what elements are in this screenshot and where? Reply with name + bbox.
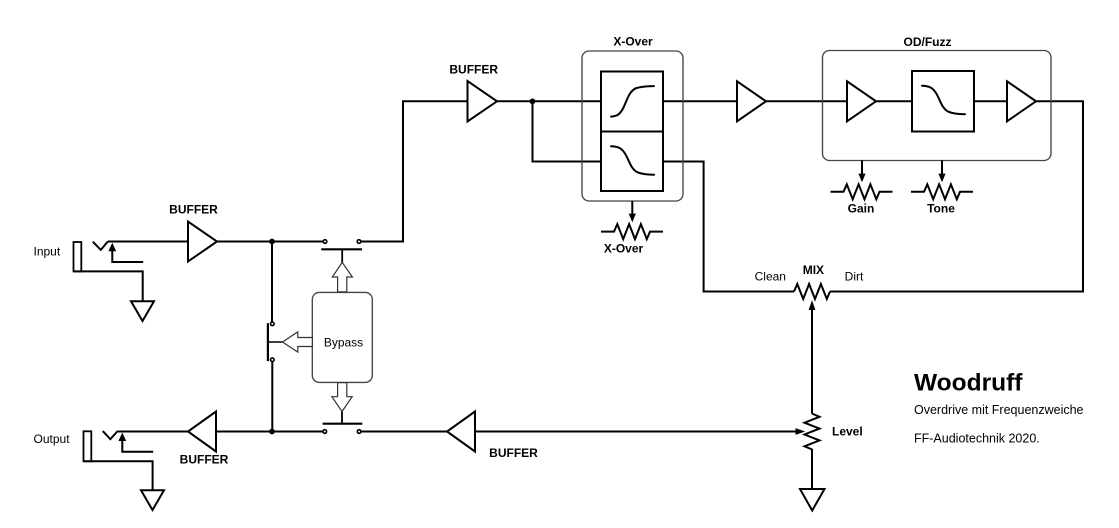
svg-text:Clean: Clean <box>755 270 786 284</box>
svg-text:Tone: Tone <box>927 202 955 216</box>
svg-text:Woodruff: Woodruff <box>914 369 1023 396</box>
svg-text:BUFFER: BUFFER <box>449 63 498 77</box>
svg-text:BUFFER: BUFFER <box>180 453 229 467</box>
svg-text:X-Over: X-Over <box>604 242 644 256</box>
svg-text:Bypass: Bypass <box>324 335 363 349</box>
svg-text:Input: Input <box>34 245 61 259</box>
svg-text:Output: Output <box>34 432 71 446</box>
svg-text:Level: Level <box>832 425 863 439</box>
svg-text:OD/Fuzz: OD/Fuzz <box>904 35 952 49</box>
svg-text:Gain: Gain <box>848 202 875 216</box>
svg-text:FF-Audiotechnik 2020.: FF-Audiotechnik 2020. <box>914 432 1040 446</box>
svg-text:BUFFER: BUFFER <box>489 446 538 460</box>
svg-text:BUFFER: BUFFER <box>169 203 218 217</box>
svg-text:MIX: MIX <box>803 263 824 277</box>
svg-text:Dirt: Dirt <box>845 270 864 284</box>
svg-text:Overdrive mit Frequenzweiche: Overdrive mit Frequenzweiche <box>914 403 1084 417</box>
svg-text:X-Over: X-Over <box>613 35 653 49</box>
